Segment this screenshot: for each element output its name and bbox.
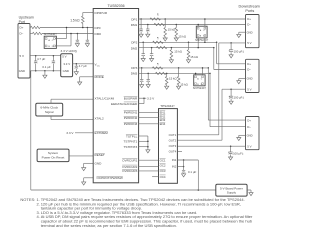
wire OVRCUR3 to OC3: [139, 170, 159, 172]
svg-text:PWRON1: PWRON1: [124, 111, 138, 115]
wire OVRCUR2 to OC2: [139, 166, 159, 168]
svg-text:NOTES:: NOTES:: [20, 197, 35, 202]
svg-text:5 V: 5 V: [247, 144, 251, 148]
svg-text:RESET: RESET: [95, 153, 105, 157]
svg-text:TPS2044†: TPS2044†: [160, 104, 175, 108]
wire GND rail from upstream: [30, 70, 61, 72]
svg-text:EN4: EN4: [160, 122, 166, 126]
resistor 15k DP1 pulldown: [163, 18, 176, 41]
resistor series 27ohm DM3: [155, 72, 166, 74]
svg-text:100 µF‡: 100 µF‡: [234, 96, 245, 100]
svg-text:15 kΩ: 15 kΩ: [180, 83, 188, 87]
wire upstream D- to DM0 with series resistor: [30, 32, 93, 34]
svg-text:PWRON2: PWRON2: [124, 116, 138, 120]
wire DM3 row: [139, 73, 246, 127]
capacitor 100uF port3: [228, 145, 244, 160]
svg-text:5 V: 5 V: [62, 55, 66, 59]
svg-text:SN75240†: SN75240†: [195, 38, 209, 42]
svg-text:6-MHz Clock: 6-MHz Clock: [40, 106, 58, 110]
svg-text:D+: D+: [20, 26, 24, 30]
ground GND pin: [82, 163, 94, 170]
svg-text:0.1 µF: 0.1 µF: [42, 65, 50, 69]
wire OC4 stub: [152, 176, 158, 178]
svg-text:15 kΩ: 15 kΩ: [178, 35, 186, 39]
svg-text:100 µF‡: 100 µF‡: [233, 152, 244, 156]
svg-text:EEDATA/: EEDATA/: [111, 102, 124, 106]
block system power-on reset: [37, 149, 69, 162]
IC U6 TPS2044 power switch: [159, 104, 178, 183]
svg-text:4.: 4.: [37, 214, 40, 219]
svg-text:DP3: DP3: [131, 66, 137, 70]
svg-text:SN75240†: SN75240†: [44, 32, 58, 36]
svg-text:DM0: DM0: [95, 32, 102, 36]
capacitor 22pF on DP0: [85, 27, 89, 47]
resistor series 27ohm DM2: [156, 46, 167, 48]
svg-text:1.5 kΩ: 1.5 kΩ: [70, 19, 80, 23]
svg-text:5 V: 5 V: [20, 54, 25, 58]
capacitor 22pF DM1: [146, 24, 150, 38]
svg-text:DM3: DM3: [131, 72, 138, 76]
wire ground/power return bus to board supply: [31, 71, 216, 191]
SN75240 U4 ports 1-2 suppressor: [195, 26, 209, 42]
svg-text:PWRON3: PWRON3: [124, 122, 138, 126]
svg-text:XTAL2: XTAL2: [95, 117, 105, 121]
svg-text:D+: D+: [247, 17, 251, 21]
svg-text:Supply: Supply: [227, 191, 237, 195]
svg-text:D+: D+: [247, 118, 251, 122]
svg-text:DP0: DP0: [95, 26, 101, 30]
resistor 15k DM1 pulldown: [174, 24, 187, 41]
svg-text:GND: GND: [95, 162, 103, 166]
svg-text:5 V: 5 V: [247, 88, 251, 92]
svg-text:GND: GND: [247, 30, 253, 34]
wire SN75240 pin D to DM0 line: [55, 33, 72, 46]
svg-text:MODE: MODE: [95, 75, 104, 79]
wire DM2 row: [139, 47, 246, 70]
wire DP3 row: [139, 67, 246, 120]
voltage regulator U3 3.3V LDO: [61, 49, 77, 77]
svg-text:Port: Port: [19, 20, 25, 24]
wire DP1 row: [139, 18, 246, 20]
svg-text:Signal: Signal: [45, 110, 54, 114]
svg-text:5 V: 5 V: [247, 41, 251, 45]
connector J0 upstream port: [18, 16, 34, 78]
ground rail symbol: [43, 71, 47, 79]
wire SN75240 pin C to DP0 line: [55, 27, 67, 39]
resistor 1.5 kOhm pull-up DP0PUR to DP0: [70, 13, 93, 29]
svg-text:terminal and the series resist: terminal and the series resistor, as per…: [41, 223, 177, 228]
svg-text:OC3: OC3: [160, 169, 166, 173]
svg-text:DM2: DM2: [131, 46, 138, 50]
svg-text:DP0PUR: DP0PUR: [95, 11, 108, 15]
svg-text:OUT4: OUT4: [169, 150, 177, 154]
capacitor 22pF DP1: [139, 18, 143, 37]
svg-text:4.7 µF: 4.7 µF: [79, 64, 87, 68]
svg-text:OVRCUR1: OVRCUR1: [122, 159, 137, 163]
svg-text:DP1: DP1: [131, 17, 137, 21]
block 5V board power supply: [216, 184, 247, 196]
svg-text:SN75240†: SN75240†: [193, 86, 207, 90]
ground connector J1 GND: [237, 32, 246, 37]
resistor series 27ohm DP2: [153, 36, 164, 43]
connector J2 downstream port 2: [246, 59, 260, 92]
svg-text:GND: GND: [19, 69, 25, 73]
svg-text:3.3 V: 3.3 V: [63, 62, 70, 66]
svg-text:15 kΩ: 15 kΩ: [190, 55, 198, 59]
resistor 15k DM2 pulldown: [169, 47, 182, 63]
node 3.3V tie BUSPWR EEDATA/GANGED: [139, 96, 156, 103]
svg-text:IN1: IN1: [172, 158, 177, 162]
svg-text:GND: GND: [63, 69, 69, 73]
SN75240 U2 upstream transient suppressor: [44, 32, 58, 48]
svg-text:BUSPWR: BUSPWR: [124, 96, 138, 100]
resistor 15k DM3 pulldown: [165, 73, 178, 90]
svg-text:CC: CC: [97, 65, 101, 67]
svg-text:OVRCUR3: OVRCUR3: [122, 169, 137, 173]
ground connector J2 GND: [237, 79, 246, 84]
text notes: [20, 197, 253, 228]
svg-text:3.3 V: 3.3 V: [147, 96, 155, 100]
ground board supply: [247, 190, 253, 196]
wire PWRON2 to EN2: [139, 117, 159, 119]
wire PWRON3 to EN4: [139, 123, 159, 125]
svg-text:GND: GND: [247, 77, 253, 81]
svg-text:Power On Reset: Power On Reset: [42, 156, 65, 160]
svg-text:15 kΩ: 15 kΩ: [168, 27, 176, 31]
wire 5V rail from upstream: [30, 55, 61, 57]
ground MODE pin: [78, 77, 94, 85]
capacitor 4.7uF LDO output: [73, 63, 94, 75]
wire U4 pins to port2 rows: [197, 38, 205, 48]
capacitor 22pF DM2: [150, 47, 154, 62]
svg-text:GND: GND: [247, 134, 253, 138]
svg-text:3.3 V: 3.3 V: [66, 131, 74, 135]
svg-text:OC1: OC1: [160, 158, 166, 162]
svg-text:2.: 2.: [37, 201, 40, 206]
resistor series 27ohm DP3: [152, 62, 163, 69]
svg-text:4.7 µF: 4.7 µF: [37, 57, 45, 61]
wire clock to XTAL2: [51, 116, 93, 120]
svg-text:D−: D−: [247, 125, 251, 129]
svg-text:OC2: OC2: [160, 163, 166, 167]
svg-text:0.1 µF: 0.1 µF: [188, 170, 196, 174]
resistor 15k DP2 pulldown: [186, 42, 198, 63]
capacitor 22pF on DM0: [75, 33, 79, 47]
svg-text:OCPROT/PWRSW: OCPROT/PWRSW: [97, 176, 123, 180]
svg-text:TSTPNT1: TSTPNT1: [124, 140, 138, 144]
wire U5 pins to port3 rows: [195, 67, 203, 75]
wire U4 pins to port1 rows: [197, 18, 205, 26]
connector J1 downstream port 1: [246, 15, 260, 48]
wire clock to XTAL1/CLK48: [51, 99, 93, 103]
resistor series 27ohm DP1: [150, 13, 161, 21]
wire upstream D+ to DP0 with series resistor: [30, 26, 93, 28]
svg-text:OUT2: OUT2: [169, 138, 177, 142]
svg-text:TUSB2036: TUSB2036: [107, 4, 124, 8]
wire OUT2 5V bus to port2 connector: [177, 89, 245, 140]
svg-text:XTAL1/CLK48: XTAL1/CLK48: [95, 97, 115, 101]
svg-text:DM1: DM1: [131, 23, 138, 27]
capacitor 22pF DP3: [140, 67, 144, 88]
svg-text:15 kΩ: 15 kΩ: [169, 77, 177, 81]
capacitor 4.7uF bulk: [34, 56, 45, 71]
svg-text:EXTMEM: EXTMEM: [95, 131, 109, 135]
resistor series 27ohm DM1: [154, 23, 165, 25]
svg-text:Ports: Ports: [245, 9, 254, 13]
capacitor 22pF DP2: [141, 42, 145, 62]
IC U1 TUSB2036 hub controller: [93, 4, 138, 183]
svg-text:D−: D−: [20, 32, 24, 36]
wire DP2 row: [139, 42, 246, 64]
svg-text:3.3 V LDO§: 3.3 V LDO§: [61, 49, 77, 53]
svg-text:IN2: IN2: [172, 165, 177, 169]
wire OVRCUR1 to OC1: [139, 159, 159, 161]
connector J3 downstream port 3: [246, 117, 260, 150]
resistor 15k DP3 pulldown: [177, 67, 189, 89]
node 3.3V tie EXTMEM: [66, 131, 93, 135]
wire IN1 IN2 supply node: [177, 159, 198, 190]
capacitor 100uF port1: [229, 42, 245, 58]
svg-text:System: System: [48, 151, 59, 155]
svg-text:GANGED: GANGED: [124, 102, 138, 106]
oscillator 6-MHz clock signal box: [36, 103, 63, 116]
ground OCPROT/PWRSW pin: [82, 178, 94, 185]
svg-text:OC4: OC4: [160, 175, 166, 179]
svg-text:D−: D−: [247, 23, 251, 27]
wire OUT3 5V to port3 connector: [177, 145, 245, 147]
svg-text:DP2: DP2: [131, 41, 137, 45]
capacitor 100uF port2: [229, 88, 245, 104]
svg-text:TSTPNT3: TSTPNT3: [124, 145, 138, 149]
SN75240 U5 port 3 suppressor: [193, 75, 207, 90]
wire PWRON1 to EN1: [139, 111, 159, 113]
wire reset box to RESET pin: [69, 155, 93, 157]
svg-text:OUT1: OUT1: [169, 133, 177, 137]
svg-text:OUT3: OUT3: [169, 144, 177, 148]
svg-text:D+: D+: [247, 62, 251, 66]
svg-text:15 kΩ: 15 kΩ: [174, 50, 182, 54]
wire OUT1 5V bus to port1 connector: [177, 43, 245, 135]
svg-text:TSTPLL: TSTPLL: [126, 134, 138, 138]
text downstream ports heading: [239, 5, 260, 13]
ground connector J3 GND: [237, 135, 246, 140]
svg-text:D−: D−: [247, 68, 251, 72]
capacitor 0.1uF TPS2044: [182, 170, 197, 177]
svg-text:100 µF‡: 100 µF‡: [234, 49, 245, 53]
ground TSTPLL/TSTPNT pins: [139, 136, 150, 153]
capacitor 22pF DM3: [146, 73, 150, 88]
wire DM1 row: [139, 24, 246, 26]
capacitor 0.1uF bypass: [42, 56, 55, 71]
wire OUT4 stub: [177, 150, 182, 152]
